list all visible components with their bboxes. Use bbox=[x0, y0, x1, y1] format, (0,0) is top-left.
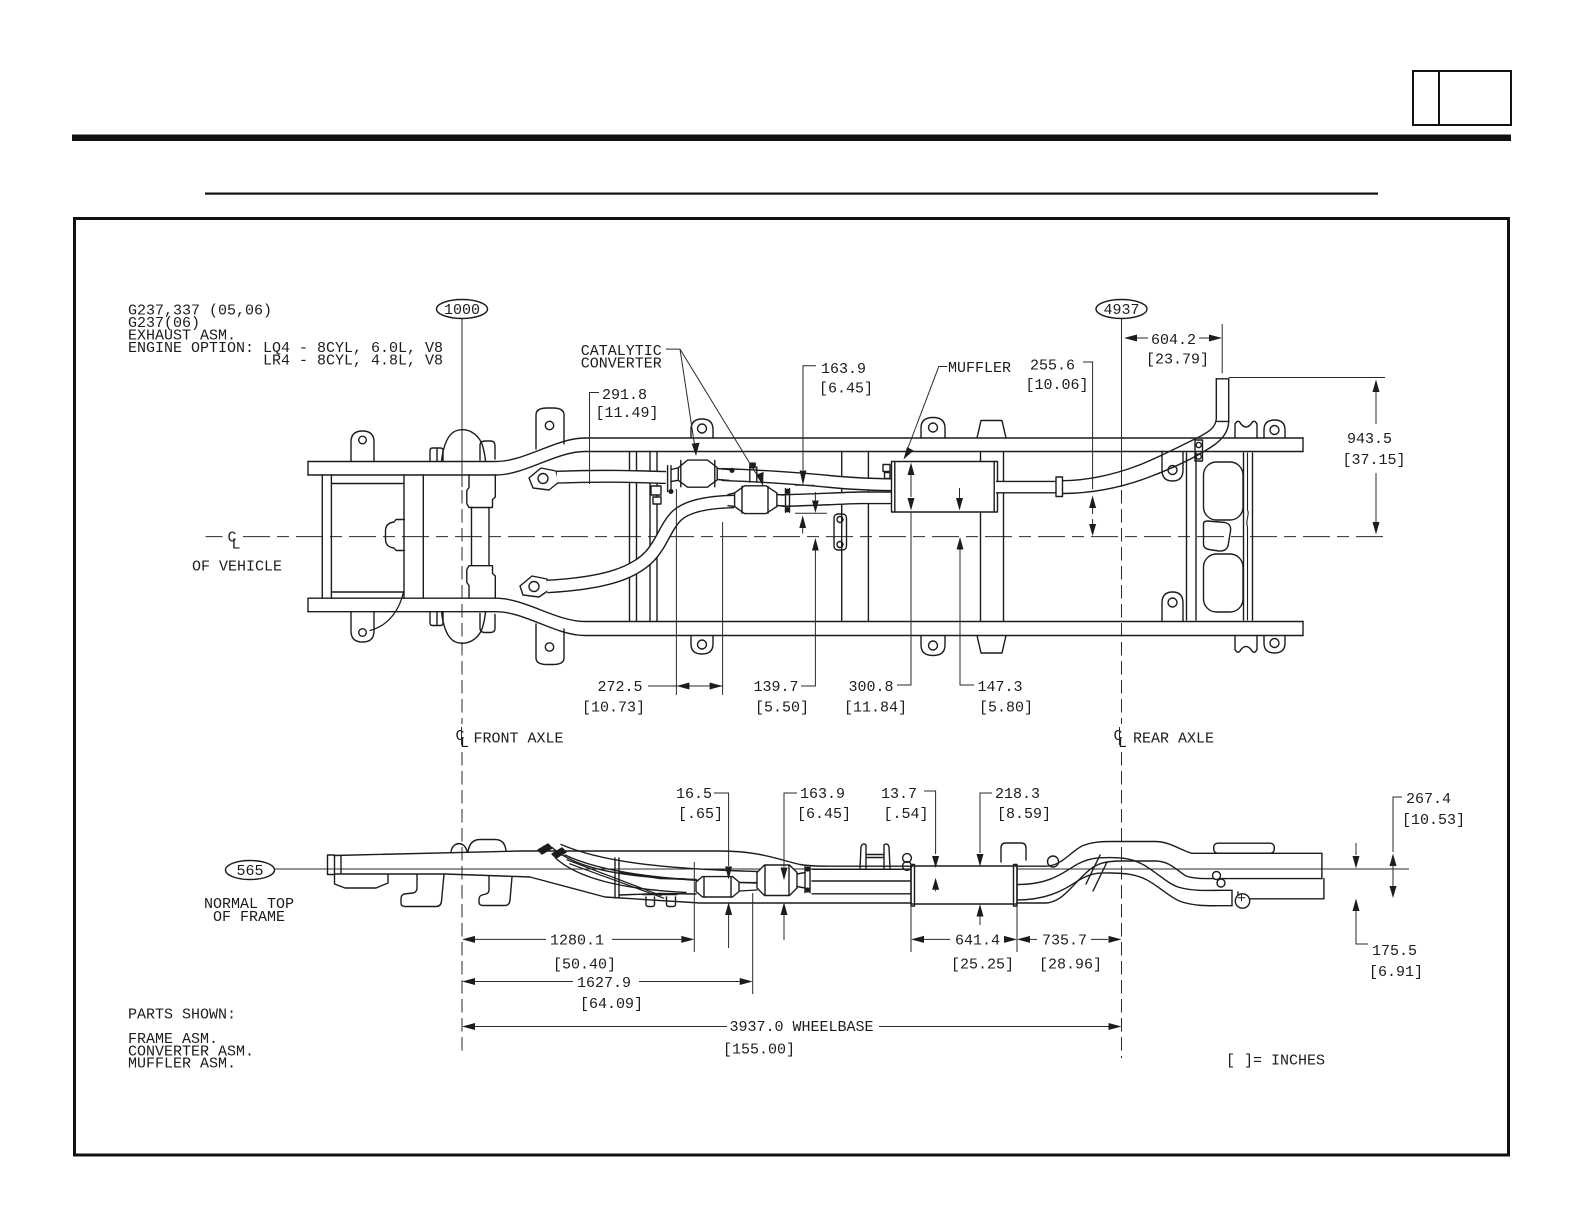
svg-text:13.7: 13.7 bbox=[881, 786, 917, 803]
svg-text:1000: 1000 bbox=[444, 302, 480, 319]
svg-text:OF FRAME: OF FRAME bbox=[213, 909, 285, 926]
svg-text:147.3: 147.3 bbox=[978, 679, 1023, 696]
svg-text:[10.06]: [10.06] bbox=[1026, 377, 1089, 394]
svg-text:[6.45]: [6.45] bbox=[797, 806, 851, 823]
svg-text:CONVERTER: CONVERTER bbox=[581, 356, 662, 373]
svg-text:604.2: 604.2 bbox=[1151, 332, 1196, 349]
svg-text:565: 565 bbox=[236, 863, 263, 880]
svg-text:MUFFLER ASM.: MUFFLER ASM. bbox=[128, 1056, 236, 1073]
svg-text:[64.09]: [64.09] bbox=[580, 996, 643, 1013]
svg-text:REAR AXLE: REAR AXLE bbox=[1133, 731, 1214, 748]
svg-text:[50.40]: [50.40] bbox=[553, 957, 616, 974]
svg-text:175.5: 175.5 bbox=[1372, 943, 1417, 960]
svg-text:291.8: 291.8 bbox=[602, 387, 647, 404]
svg-text:267.4: 267.4 bbox=[1406, 791, 1451, 808]
svg-text:[11.49]: [11.49] bbox=[596, 405, 659, 422]
svg-text:[6.91]: [6.91] bbox=[1369, 964, 1423, 981]
svg-text:218.3: 218.3 bbox=[995, 786, 1040, 803]
svg-text:[ ]= INCHES: [ ]= INCHES bbox=[1226, 1053, 1325, 1070]
svg-text:LR4 - 8CYL, 4.8L, V8: LR4 - 8CYL, 4.8L, V8 bbox=[263, 353, 443, 370]
svg-text:943.5: 943.5 bbox=[1347, 431, 1392, 448]
svg-text:3937.0 WHEELBASE: 3937.0 WHEELBASE bbox=[730, 1019, 874, 1036]
svg-text:[10.73]: [10.73] bbox=[582, 700, 645, 717]
svg-text:[25.25]: [25.25] bbox=[951, 957, 1014, 974]
svg-text:1280.1: 1280.1 bbox=[550, 933, 604, 950]
svg-text:MUFFLER: MUFFLER bbox=[948, 360, 1011, 377]
svg-text:[.65]: [.65] bbox=[678, 806, 723, 823]
svg-text:163.9: 163.9 bbox=[800, 786, 845, 803]
svg-text:16.5: 16.5 bbox=[676, 786, 712, 803]
svg-text:[155.00]: [155.00] bbox=[723, 1042, 795, 1059]
svg-text:[5.80]: [5.80] bbox=[979, 700, 1033, 717]
svg-text:[.54]: [.54] bbox=[884, 806, 929, 823]
svg-text:4937: 4937 bbox=[1103, 302, 1139, 319]
svg-text:[8.59]: [8.59] bbox=[997, 806, 1051, 823]
svg-text:641.4: 641.4 bbox=[955, 933, 1000, 950]
svg-text:[28.96]: [28.96] bbox=[1039, 957, 1102, 974]
svg-text:1627.9: 1627.9 bbox=[577, 975, 631, 992]
svg-text:[10.53]: [10.53] bbox=[1402, 812, 1465, 829]
svg-text:FRONT AXLE: FRONT AXLE bbox=[474, 731, 564, 748]
svg-text:735.7: 735.7 bbox=[1042, 933, 1087, 950]
svg-text:255.6: 255.6 bbox=[1030, 358, 1075, 375]
svg-text:OF VEHICLE: OF VEHICLE bbox=[192, 559, 282, 576]
svg-text:[6.45]: [6.45] bbox=[819, 381, 873, 398]
svg-text:139.7: 139.7 bbox=[754, 679, 799, 696]
svg-text:[37.15]: [37.15] bbox=[1343, 452, 1406, 469]
svg-text:[5.50]: [5.50] bbox=[755, 700, 809, 717]
svg-text:[11.84]: [11.84] bbox=[844, 700, 907, 717]
svg-text:272.5: 272.5 bbox=[598, 679, 643, 696]
svg-text:[23.79]: [23.79] bbox=[1146, 352, 1209, 369]
svg-text:300.8: 300.8 bbox=[849, 679, 894, 696]
svg-text:PARTS SHOWN:: PARTS SHOWN: bbox=[128, 1007, 236, 1024]
svg-text:163.9: 163.9 bbox=[821, 361, 866, 378]
svg-text:L: L bbox=[232, 537, 241, 554]
